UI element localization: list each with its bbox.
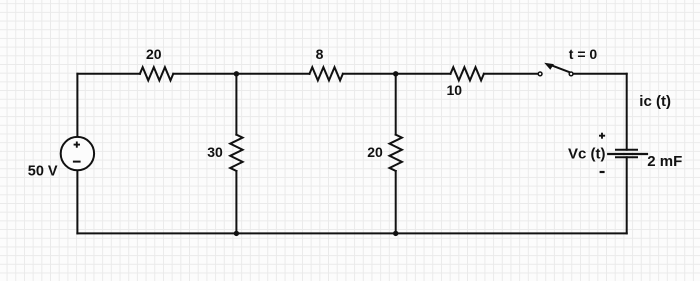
source minus sign	[73, 161, 81, 163]
svg-text:Vc (t): Vc (t)	[568, 146, 606, 163]
switch left contact circle	[538, 72, 542, 76]
wire between R8 and node B	[343, 73, 451, 75]
capacitor C top plate	[616, 149, 637, 151]
resistor R=10 horizontal zigzag	[451, 67, 484, 80]
capacitor plus sign	[599, 133, 605, 139]
svg-text:10: 10	[447, 82, 463, 98]
svg-text:ic (t): ic (t)	[639, 93, 671, 110]
switch arrowhead	[544, 63, 554, 70]
capacitor minus sign	[600, 171, 605, 173]
wire branch 1 vertical below R30	[235, 171, 237, 233]
capacitor C middle long plate	[608, 153, 647, 155]
switch arm	[552, 66, 570, 73]
wire between R20 and node A	[173, 73, 309, 75]
svg-text:2 mF: 2 mF	[647, 153, 682, 170]
wire left vertical below source	[76, 170, 78, 233]
junction node dot top-left	[234, 71, 239, 76]
wire branch 2 vertical below R20v	[395, 171, 397, 233]
wire right vertical below capacitor	[626, 157, 628, 233]
svg-text:30: 30	[207, 144, 223, 160]
svg-text:50 V: 50 V	[28, 164, 58, 180]
source plus sign	[74, 142, 80, 148]
switch right contact circle	[569, 72, 573, 76]
junction node dot bottom-right	[393, 231, 398, 236]
voltage source V1 circle	[61, 137, 94, 170]
wire right vertical above capacitor	[626, 74, 628, 150]
wire top-left horizontal	[77, 73, 139, 75]
wire R10 to switch	[484, 73, 538, 75]
wire switch to top-right corner	[573, 73, 626, 75]
resistor R=20 vertical zigzag	[390, 135, 402, 171]
resistor R=8 horizontal zigzag	[310, 67, 343, 80]
svg-text:20: 20	[367, 144, 383, 160]
junction node dot top-right	[393, 71, 398, 76]
svg-text:8: 8	[316, 46, 324, 62]
resistor R=20 horizontal zigzag	[140, 67, 173, 80]
svg-text:t = 0: t = 0	[569, 46, 598, 62]
wire branch 1 vertical above R30	[235, 74, 237, 135]
junction node dot bottom-left	[234, 231, 239, 236]
resistor R=30 vertical zigzag	[230, 135, 242, 171]
wire branch 2 vertical above R20v	[395, 74, 397, 135]
svg-text:20: 20	[146, 46, 162, 62]
wire bottom horizontal	[77, 232, 626, 234]
capacitor C bottom plate	[616, 156, 637, 158]
wire left vertical above source	[76, 74, 78, 137]
